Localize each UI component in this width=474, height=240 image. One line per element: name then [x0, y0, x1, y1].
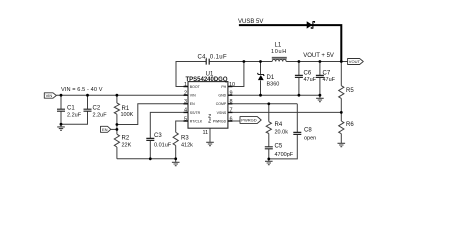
svg-text:412k: 412k [181, 143, 193, 149]
svg-text:TPS54240DGQ: TPS54240DGQ [185, 77, 227, 83]
svg-text:22K: 22K [122, 143, 132, 149]
svg-text:20.0k: 20.0k [275, 130, 289, 136]
svg-text:6: 6 [230, 116, 233, 122]
svg-text:C8: C8 [304, 128, 312, 134]
svg-text:3: 3 [184, 99, 187, 105]
svg-text:9: 9 [230, 91, 233, 97]
svg-text:C5: C5 [275, 144, 283, 150]
svg-text:VUSB 5V: VUSB 5V [238, 19, 263, 25]
svg-text:2.2uF: 2.2uF [93, 113, 108, 119]
svg-text:PWRGD: PWRGD [213, 119, 227, 123]
svg-text:PWRGD: PWRGD [241, 118, 256, 123]
svg-text:D1: D1 [267, 75, 275, 81]
svg-text:BOOT: BOOT [190, 85, 201, 89]
svg-text:VIN = 6.5 - 40 V: VIN = 6.5 - 40 V [61, 87, 103, 93]
svg-text:1: 1 [184, 82, 187, 88]
svg-text:R5: R5 [346, 88, 354, 94]
svg-text:R6: R6 [346, 122, 354, 128]
svg-text:2: 2 [184, 91, 187, 97]
svg-text:open: open [304, 136, 316, 142]
svg-text:2.2uF: 2.2uF [67, 113, 82, 119]
svg-text:VOUT: VOUT [349, 59, 361, 64]
svg-text:L1: L1 [275, 43, 282, 49]
svg-text:VIN: VIN [190, 94, 196, 98]
svg-text:SS/TR: SS/TR [190, 111, 201, 115]
svg-text:8: 8 [230, 99, 233, 105]
svg-text:VIN: VIN [46, 93, 53, 98]
svg-text:B360: B360 [267, 82, 280, 88]
svg-text:C6: C6 [304, 71, 312, 77]
svg-text:R2: R2 [122, 136, 130, 142]
svg-text:11: 11 [203, 130, 209, 136]
svg-text:GND: GND [218, 94, 226, 98]
svg-text:VOUT + 5V: VOUT + 5V [303, 53, 334, 59]
svg-text:RT/CLK: RT/CLK [190, 119, 203, 123]
svg-text:C2: C2 [93, 106, 101, 112]
svg-text:47uF: 47uF [323, 77, 336, 83]
svg-text:4: 4 [184, 108, 187, 114]
svg-text:100K: 100K [121, 112, 134, 118]
svg-text:7: 7 [230, 108, 233, 114]
svg-text:C3: C3 [154, 133, 162, 139]
svg-text:PH: PH [221, 85, 226, 89]
svg-text:COMP: COMP [216, 102, 227, 106]
svg-text:5: 5 [184, 116, 187, 122]
svg-text:EN: EN [102, 127, 108, 132]
svg-text:4700pF: 4700pF [275, 152, 294, 158]
svg-text:0.01uF: 0.01uF [154, 143, 172, 149]
svg-text:C1: C1 [67, 106, 75, 112]
svg-text:R4: R4 [275, 122, 283, 128]
svg-text:10uH: 10uH [271, 49, 287, 55]
svg-text:R3: R3 [181, 136, 189, 142]
svg-text:C7: C7 [323, 71, 331, 77]
svg-text:C4, 0.1uF: C4, 0.1uF [198, 54, 228, 60]
svg-text:PwPd: PwPd [208, 114, 212, 123]
svg-text:10: 10 [229, 82, 235, 88]
svg-text:EN: EN [190, 102, 195, 106]
svg-text:47uF: 47uF [304, 77, 317, 83]
svg-text:VSNS: VSNS [217, 111, 227, 115]
